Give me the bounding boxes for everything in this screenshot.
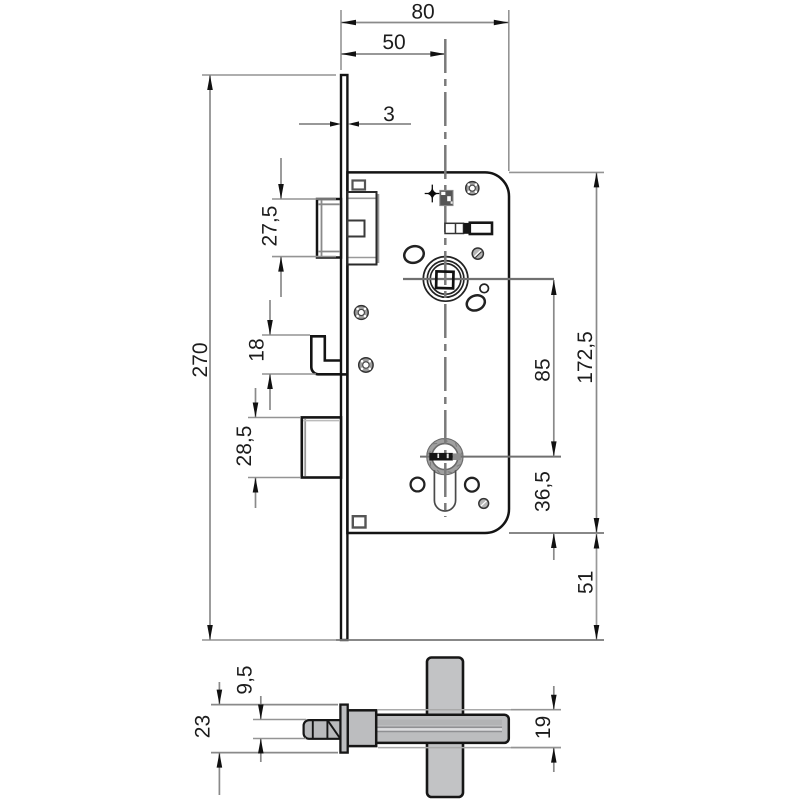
section view 19 extension lines over parts: [378, 709, 561, 711]
screw left upper crosshatched: [354, 306, 368, 320]
svg-text:172,5: 172,5: [574, 331, 597, 384]
svg-text:18: 18: [246, 338, 269, 361]
fixing hole right of cylinder: [465, 478, 479, 492]
pictogram square badge: [440, 190, 453, 205]
cylinder mounting ring: [427, 439, 463, 475]
dimension 50: [341, 31, 445, 57]
svg-text:50: 50: [382, 31, 405, 54]
screw left lower crosshatched: [359, 358, 373, 372]
dimension 18: [246, 300, 317, 410]
faceplate: [341, 75, 347, 640]
latch spring hole: [348, 221, 365, 237]
deadbolt head: [302, 417, 341, 477]
dimension 270: [189, 75, 336, 640]
svg-text:51: 51: [575, 571, 598, 594]
svg-text:3: 3: [383, 103, 395, 126]
latch guide square: [353, 181, 366, 190]
wire horizontal centerline through follower: [403, 278, 554, 280]
dimension 51: [336, 533, 604, 640]
section view faceplate: [340, 705, 347, 753]
pictogram diamond: [427, 186, 438, 201]
oval hole left of follower: [402, 244, 426, 266]
svg-text:28,5: 28,5: [233, 426, 256, 467]
screw top right crosshatched: [466, 182, 479, 195]
latch bolt body: [348, 192, 379, 265]
dimension 36,5: [509, 471, 604, 560]
section view latch housing block: [348, 710, 377, 746]
svg-text:270: 270: [189, 342, 212, 377]
latch bolt head: [317, 199, 341, 258]
svg-text:27,5: 27,5: [259, 206, 282, 247]
cylinder key bar: [429, 453, 453, 461]
cylinder profile stem: [434, 470, 455, 511]
section view case groove: [349, 728, 503, 731]
follower rings: [423, 257, 468, 302]
dimension 9,5: [234, 665, 307, 762]
dimension 23: [192, 682, 339, 795]
dimension 28,5: [233, 388, 300, 508]
dimension 3 faceplate thickness: [299, 103, 411, 127]
auxiliary hook bolt: [311, 336, 347, 374]
fixing hole left of cylinder: [411, 478, 425, 492]
screw hatched below cylinder: [479, 499, 489, 509]
dimension 19: [511, 686, 561, 772]
svg-text:9,5: 9,5: [234, 665, 257, 694]
section view case bar: [348, 715, 509, 743]
section view latch head: [304, 720, 341, 739]
svg-text:19: 19: [532, 716, 555, 739]
wire horizontal centerline through cylinder: [420, 456, 561, 458]
section view follower boss: [427, 658, 463, 798]
oval hole below right of follower: [464, 293, 487, 314]
dimension 172,5: [509, 172, 604, 533]
svg-text:85: 85: [532, 358, 555, 381]
dimension 27,5: [259, 158, 337, 297]
screw hatched near follower: [472, 248, 483, 259]
fixing square bottom: [353, 516, 366, 527]
dimension 85: [532, 280, 557, 456]
slide slot bar: [445, 223, 492, 234]
svg-text:23: 23: [192, 715, 215, 738]
small hole right of follower: [480, 284, 489, 293]
lock case: [347, 172, 509, 533]
svg-text:80: 80: [411, 1, 434, 24]
dimension 80: [341, 1, 509, 172]
svg-text:36,5: 36,5: [532, 471, 555, 512]
wire vertical dash-dot centerline: [444, 39, 447, 517]
follower square spindle hole: [436, 271, 453, 288]
